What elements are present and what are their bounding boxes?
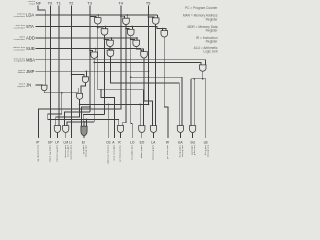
svg-text:STA: STA [26,24,34,29]
svg-text:SU: SU [190,140,195,144]
svg-text:T5: T5 [146,2,150,6]
svg-text:T4: T4 [118,2,122,6]
svg-text:accumulator: accumulator [14,15,26,18]
svg-text:from the bus: from the bus [206,145,209,158]
svg-text:LDA: LDA [26,13,34,18]
svg-text:memory cell enable: memory cell enable [106,145,109,165]
svg-text:Register: Register [206,17,219,21]
svg-text:NF: NF [36,2,42,6]
svg-text:address to mem: address to mem [113,145,116,161]
svg-text:accumulator: accumulator [14,26,26,29]
svg-text:write mem cell: write mem cell [166,145,169,159]
svg-text:MBA: MBA [26,57,35,62]
svg-text:EI: EI [82,140,85,144]
svg-text:enable PC to bus: enable PC to bus [49,145,52,163]
svg-text:T2: T2 [69,2,73,6]
svg-text:address: address [18,71,25,74]
svg-text:read memory cell: read memory cell [119,145,122,162]
svg-text:LI: LI [69,140,72,144]
svg-text:load instruction: load instruction [70,145,73,160]
svg-text:SUB: SUB [26,46,35,51]
svg-text:load A from bus: load A from bus [152,145,155,161]
svg-text:onto the bus: onto the bus [181,145,184,158]
svg-text:CE: CE [106,140,111,144]
svg-text:LO: LO [130,140,135,144]
svg-text:address reg: address reg [66,145,69,157]
svg-text:accumulator: accumulator [14,38,26,41]
svg-text:JN: JN [26,83,31,88]
svg-text:from reg A: from reg A [193,145,196,156]
svg-text:JMP: JMP [26,69,35,74]
svg-text:in register B: in register B [14,60,26,63]
svg-text:Register: Register [206,40,219,44]
svg-text:enable IR: enable IR [82,145,84,155]
svg-text:LM: LM [64,140,69,144]
svg-text:T3: T3 [87,2,91,6]
svg-text:T1: T1 [56,2,60,6]
svg-text:Logic Unit: Logic Unit [203,50,217,54]
svg-text:T0: T0 [48,2,52,6]
svg-text:EO: EO [140,140,145,144]
svg-text:onto the bus: onto the bus [85,145,88,158]
svg-text:Register: Register [206,29,219,33]
svg-text:increment the PC: increment the PC [37,145,40,162]
svg-text:negative: negative [17,85,26,88]
svg-text:ring of: ring of [29,2,35,5]
svg-text:PC = Program Counter: PC = Program Counter [185,6,218,10]
svg-text:enable output: enable output [140,145,143,159]
svg-text:load PC from bus: load PC from bus [56,145,59,163]
svg-text:accumulator: accumulator [14,49,26,52]
svg-text:load output reg: load output reg [130,145,133,160]
svg-text:ADD: ADD [26,36,35,41]
